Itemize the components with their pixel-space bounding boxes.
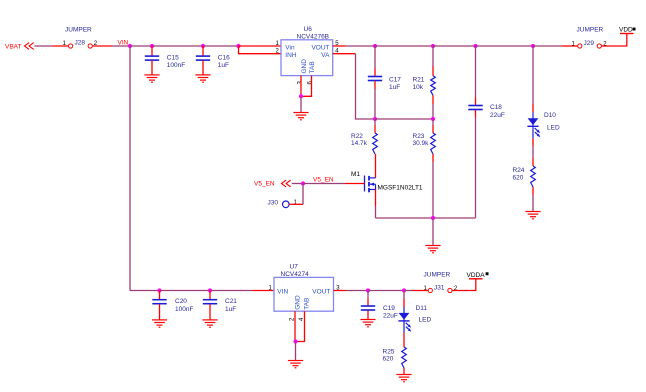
wire J30 up to V5_EN	[302, 184, 304, 205]
power symbol VDDA square marker	[486, 272, 489, 275]
svg-text:R25: R25	[383, 348, 395, 355]
svg-text:R22: R22	[351, 133, 363, 140]
wire VA down to divider	[356, 54, 376, 119]
capacitor C17	[368, 77, 382, 81]
svg-text:22uF: 22uF	[383, 313, 398, 320]
svg-text:620: 620	[513, 175, 524, 182]
svg-text:1uF: 1uF	[218, 62, 229, 69]
wire R21 upper	[432, 46, 434, 66]
ground at divider	[425, 246, 440, 253]
pin wire C21 bottom	[209, 304, 211, 320]
pin wire R23 top	[432, 125, 434, 133]
wire divider mid line	[375, 118, 433, 120]
wire VDDA rail segment 3	[404, 290, 413, 292]
capacitor C18	[468, 106, 482, 110]
junction D11 branch	[402, 288, 406, 292]
pin wire C21 top	[209, 291, 211, 300]
svg-text:VIN: VIN	[118, 39, 129, 46]
svg-text:R24: R24	[513, 167, 525, 174]
pin wire U6 GND pin 3	[300, 76, 302, 97]
pin wire R22 bottom to M1 drain	[375, 154, 377, 178]
svg-text:LED: LED	[419, 316, 432, 323]
wire M1 source to ground rail	[375, 206, 377, 218]
pin stub U6 pin 1	[239, 45, 282, 47]
svg-text:VA: VA	[321, 52, 330, 59]
ground at U6	[293, 113, 308, 120]
jumper J31 pin 1	[428, 288, 432, 292]
jumper J29 pin 1	[578, 44, 582, 48]
wire C20 to C21	[160, 290, 211, 292]
svg-text:C18: C18	[490, 104, 502, 111]
pin stub U6 pin 5 VOUT	[333, 45, 345, 47]
svg-text:R23: R23	[413, 133, 425, 140]
pin stub J29 pin 1	[562, 45, 578, 47]
wire D10 to R24	[532, 146, 534, 158]
svg-text:C16: C16	[218, 54, 230, 61]
svg-text:LED: LED	[547, 124, 560, 131]
pin wire C20 top	[159, 291, 161, 300]
wire R22 upper	[374, 119, 376, 125]
transistor M1 MOSFET MGSF1N02LT1	[365, 176, 376, 193]
pin wire C15 top	[151, 46, 153, 56]
wire ground rail stem	[432, 218, 434, 246]
wire VIN bottom rail	[130, 290, 160, 292]
svg-text:620: 620	[383, 356, 394, 363]
op-amp U6 regulator NCV4276B body	[281, 40, 333, 76]
junction D10 branch	[531, 44, 535, 48]
pin wire R25 bottom	[403, 368, 405, 375]
wire C16 to U6 branch	[203, 45, 239, 47]
svg-text:NCV4276B: NCV4276B	[297, 33, 330, 40]
jumper J29 pin 2	[597, 44, 601, 48]
svg-text:GND: GND	[294, 295, 301, 310]
off-page connector V5_EN	[282, 180, 291, 187]
op-amp U7 regulator NCV4274 body	[274, 277, 334, 311]
wire VBAT to J28 pin 1	[35, 45, 53, 47]
wire VDDA rail segment 2	[368, 290, 404, 292]
svg-text:C15: C15	[167, 54, 179, 61]
pin wire R24 bottom	[532, 187, 534, 195]
ground at C19	[360, 320, 375, 327]
pin wire C17 top	[374, 69, 376, 77]
svg-text:C21: C21	[225, 298, 237, 305]
junction V5_EN	[301, 181, 305, 185]
ground at C20	[152, 320, 167, 327]
ground at R25	[396, 375, 411, 382]
pin stub U7 pin 1	[252, 290, 274, 292]
wire V5_EN from connector	[292, 183, 303, 185]
svg-text:U6: U6	[304, 26, 313, 33]
pin wire R22 top	[374, 125, 376, 133]
pin wire C19 bottom	[367, 310, 369, 319]
wire VOUT rail segment 5	[533, 45, 562, 47]
svg-text:VDDA: VDDA	[467, 272, 486, 279]
pin wire R24 top	[532, 158, 534, 166]
svg-text:J29: J29	[584, 40, 595, 47]
pin wire C18 bottom	[475, 110, 477, 118]
svg-text:100nF: 100nF	[175, 306, 193, 313]
pin wire R23 bottom	[432, 154, 434, 162]
resistor R22	[373, 133, 378, 154]
junction R21 top	[431, 44, 435, 48]
junction C15	[150, 44, 154, 48]
svg-text:J28: J28	[75, 40, 86, 47]
svg-text:VBAT: VBAT	[5, 43, 22, 50]
capacitor C21	[203, 300, 217, 304]
svg-text:1uF: 1uF	[389, 84, 400, 91]
pin stub U6 pin 2 INH tie	[239, 46, 282, 54]
pin wire C16 top	[202, 46, 204, 56]
svg-text:C20: C20	[175, 298, 187, 305]
wire VOUT rail segment 3	[433, 45, 476, 47]
pin stub J31 pin 2 to VDDA	[452, 279, 476, 291]
pin stub U6 pin 4 VA	[333, 53, 356, 55]
svg-text:INH: INH	[285, 52, 297, 59]
svg-text:14.7k: 14.7k	[351, 140, 368, 147]
junction C18 top	[473, 44, 477, 48]
wire M1/R23/C18 ground rail	[376, 217, 476, 219]
svg-text:NCV4274: NCV4274	[281, 271, 310, 278]
junction node VIN	[128, 44, 132, 48]
wire R23 upper	[432, 119, 434, 125]
svg-text:VIN: VIN	[277, 288, 288, 295]
power symbol VDD square marker	[633, 28, 636, 31]
junction C21	[208, 288, 212, 292]
ground at R24	[525, 212, 540, 219]
junction C19	[366, 288, 370, 292]
pin wire U7 TAB pin 4	[296, 311, 305, 341]
off-page connector VBAT	[25, 43, 34, 50]
wire R24 to ground	[532, 195, 534, 212]
pin stub J28 pin 2	[93, 45, 113, 47]
resistor R23	[431, 133, 436, 154]
resistor R21	[431, 76, 436, 96]
capacitor C19	[361, 306, 375, 310]
ground at C16	[195, 75, 210, 82]
svg-text:JUMPER: JUMPER	[577, 27, 604, 34]
pin stub J30	[289, 203, 303, 205]
svg-text:1uF: 1uF	[225, 306, 236, 313]
svg-text:Vin: Vin	[285, 45, 295, 52]
ground at U7	[288, 361, 303, 368]
svg-text:C17: C17	[389, 77, 401, 84]
wire VOUT rail segment 2	[375, 45, 433, 47]
connector J30 pin circle	[283, 201, 290, 208]
pin wire C17 bottom	[374, 81, 376, 89]
pin wire C19 top	[367, 298, 369, 306]
svg-text:30.9k: 30.9k	[413, 140, 430, 147]
svg-text:10k: 10k	[413, 84, 424, 91]
svg-text:D11: D11	[416, 305, 428, 312]
pin wire D10 anode	[532, 104, 534, 112]
pin wire U6 TAB pin 6	[301, 76, 312, 97]
wire J28 to VIN node	[112, 45, 130, 47]
svg-text:R21: R21	[413, 77, 425, 84]
svg-text:3: 3	[297, 81, 303, 85]
wire C18 lower	[475, 118, 477, 219]
LED D11	[398, 307, 411, 333]
pin wire R21 bottom	[432, 95, 434, 104]
jumper J31 pin 2	[448, 288, 452, 292]
jumper J28 pin 2	[88, 44, 92, 48]
jumper J28 pin 1	[69, 44, 73, 48]
power symbol VDDA bar	[469, 278, 483, 280]
svg-text:22uF: 22uF	[490, 112, 505, 119]
junction divider mid at R21/R23	[431, 117, 435, 121]
pin wire U7 GND pin 2	[294, 311, 296, 341]
wire U7 ground stem	[295, 342, 297, 361]
pin wire M1 gate	[345, 183, 365, 185]
pin stub U7 pin 3 VOUT	[334, 290, 346, 292]
svg-text:VOUT: VOUT	[311, 45, 329, 52]
pin wire C16 bottom	[202, 60, 204, 75]
pin wire D11 anode	[403, 299, 405, 307]
wire C18 upper	[475, 46, 477, 98]
svg-text:U7: U7	[290, 264, 299, 271]
pin wire R21 top	[432, 66, 434, 76]
svg-text:GND: GND	[301, 59, 308, 74]
wire C17 lower	[374, 89, 376, 119]
svg-text:C19: C19	[383, 305, 395, 312]
wire VIN vertical to bottom section	[129, 46, 131, 291]
svg-text:JUMPER: JUMPER	[65, 27, 92, 34]
junction U7 ground pins	[293, 339, 297, 343]
wire VDDA rail segment 1	[346, 290, 369, 292]
wire V5_EN to gate stub	[303, 183, 345, 185]
wire U6 ground stem	[300, 96, 302, 112]
svg-text:VDD: VDD	[619, 27, 633, 34]
wire VOUT rail segment 1	[345, 45, 375, 47]
junction U6 input branch	[236, 44, 240, 48]
wire R23 lower	[432, 162, 434, 218]
svg-text:TAB: TAB	[309, 61, 316, 73]
wire D10 upper	[532, 46, 534, 104]
svg-text:VOUT: VOUT	[312, 288, 330, 295]
svg-text:M1: M1	[351, 171, 360, 178]
svg-text:V5_EN: V5_EN	[254, 180, 275, 187]
junction C20	[157, 288, 161, 292]
svg-text:MGSF1N02LT1: MGSF1N02LT1	[378, 185, 423, 192]
junction ground rail	[431, 216, 435, 220]
pin stub J29 pin 2 to VDD	[602, 34, 627, 47]
resistor R24	[531, 166, 536, 187]
svg-text:JUMPER: JUMPER	[424, 272, 451, 279]
pin wire C20 bottom	[159, 304, 161, 320]
junction U6 ground pins	[299, 94, 303, 98]
svg-text:100nF: 100nF	[167, 62, 185, 69]
LED D10	[527, 112, 540, 138]
pin wire D11 cathode	[403, 333, 405, 347]
svg-text:D10: D10	[544, 112, 556, 119]
svg-text:J31: J31	[434, 285, 445, 292]
wire VOUT rail segment 4	[476, 45, 534, 47]
svg-text:6: 6	[308, 81, 314, 85]
junction divider mid at C17/R22	[373, 117, 377, 121]
pin wire C18 top	[475, 98, 477, 106]
capacitor C16	[196, 56, 210, 60]
wire C17 upper	[374, 46, 376, 69]
resistor R25	[402, 347, 407, 368]
pin wire M1 source	[375, 190, 377, 207]
svg-text:J30: J30	[268, 200, 279, 207]
pin stub J28 pin 1	[52, 45, 68, 47]
pin wire D10 cathode	[532, 138, 534, 146]
wire D11 upper	[403, 291, 405, 300]
pin stub J31 pin 1	[413, 290, 429, 292]
wire C19 upper	[367, 291, 369, 299]
capacitor C20	[152, 300, 166, 304]
junction C16	[201, 44, 205, 48]
capacitor C15	[145, 56, 159, 60]
ground at C21	[202, 320, 217, 327]
wire R21 lower	[432, 104, 434, 119]
wire C21 to U7	[210, 290, 252, 292]
ground at C15	[144, 75, 159, 82]
pin wire C15 bottom	[151, 60, 153, 75]
wire VIN rail to C15	[130, 45, 152, 47]
svg-text:TAB: TAB	[303, 298, 310, 310]
wire C15 to C16	[152, 45, 203, 47]
power symbol VDD bar	[620, 33, 634, 35]
svg-text:V5_EN: V5_EN	[313, 177, 334, 184]
junction C17 top	[373, 44, 377, 48]
